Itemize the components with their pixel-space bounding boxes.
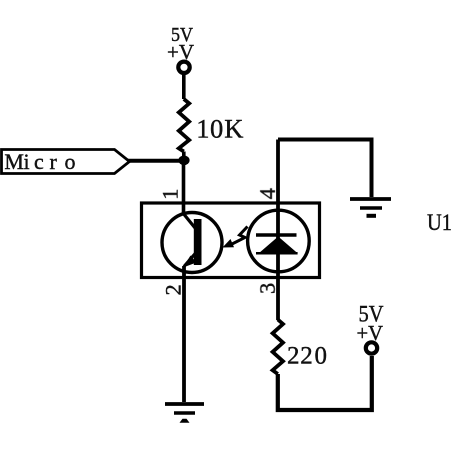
wire R1 to junction <box>182 152 186 161</box>
phototransistor base bar <box>194 219 202 265</box>
ground GND left bar2 <box>174 411 195 415</box>
svg-text:3: 3 <box>255 283 280 294</box>
phototransistor collector line <box>183 213 196 229</box>
phototransistor circle <box>162 213 222 273</box>
svg-text:2: 2 <box>161 284 186 295</box>
wire junction to pin 1 <box>182 161 186 215</box>
optocoupler U1 body <box>142 203 320 278</box>
supply terminal +V top <box>178 62 189 73</box>
wire R2 to bottom corner to +V terminal <box>278 356 372 410</box>
ground GND right bar1 <box>350 197 391 201</box>
wire pin4 top corner to right <box>278 140 372 198</box>
svg-text:220: 220 <box>287 343 327 370</box>
net flag Micro <box>2 150 130 174</box>
node junction dot <box>178 156 189 166</box>
wire from +V terminal to R1 <box>182 75 186 100</box>
LED circle <box>248 210 310 272</box>
LED cathode bar <box>256 233 297 237</box>
ground GND left bar1 <box>165 402 204 406</box>
wire pin 2 to ground <box>182 266 186 402</box>
ground GND right bar3 <box>367 214 377 218</box>
phototransistor emitter line <box>184 252 197 267</box>
wire pin 4 through LED to pin 3 <box>276 140 280 321</box>
wire Micro flag to junction <box>128 159 184 163</box>
ground GND right bar2 <box>360 206 382 210</box>
light arrow from LED to transistor <box>231 227 248 245</box>
svg-text:U1: U1 <box>427 210 452 235</box>
svg-text:4: 4 <box>255 188 280 199</box>
svg-text:Micro: Micro <box>4 149 75 174</box>
supply terminal +V bottom right <box>366 342 377 353</box>
resistor R2 220 <box>273 320 283 375</box>
ground GND left bar3 <box>180 419 190 423</box>
phototransistor emitter arrow <box>183 256 197 268</box>
svg-text:1: 1 <box>158 189 183 200</box>
svg-text:+V: +V <box>357 321 384 345</box>
svg-text:10K: 10K <box>196 114 243 144</box>
resistor R1 10K <box>179 99 189 152</box>
LED triangle <box>259 237 298 254</box>
LED anode base line <box>256 252 298 255</box>
